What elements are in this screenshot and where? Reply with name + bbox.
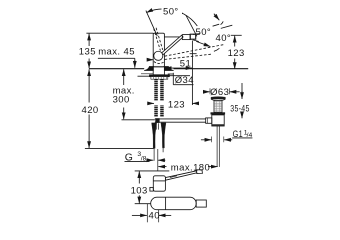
svg-text:Ø34: Ø34 — [175, 75, 194, 86]
svg-text:max.180: max.180 — [171, 162, 210, 173]
svg-text:G1: G1 — [233, 129, 243, 140]
svg-text:40: 40 — [149, 210, 160, 221]
svg-text:123: 123 — [228, 48, 245, 59]
svg-text:50°: 50° — [196, 27, 212, 38]
svg-text:51: 51 — [180, 58, 191, 69]
svg-text:420: 420 — [82, 105, 99, 116]
svg-text:G: G — [125, 152, 134, 163]
svg-text:300: 300 — [113, 95, 130, 106]
svg-text:Ø63: Ø63 — [210, 87, 229, 98]
svg-text:/4: /4 — [247, 132, 253, 139]
svg-text:50°: 50° — [163, 7, 179, 18]
svg-text:123: 123 — [168, 100, 185, 111]
svg-text:135: 135 — [79, 47, 96, 58]
svg-text:/8: /8 — [141, 155, 147, 162]
svg-text:35-45: 35-45 — [230, 103, 249, 114]
svg-text:max. 45: max. 45 — [98, 47, 135, 58]
svg-text:40°: 40° — [216, 33, 232, 44]
svg-text:103: 103 — [131, 185, 148, 196]
